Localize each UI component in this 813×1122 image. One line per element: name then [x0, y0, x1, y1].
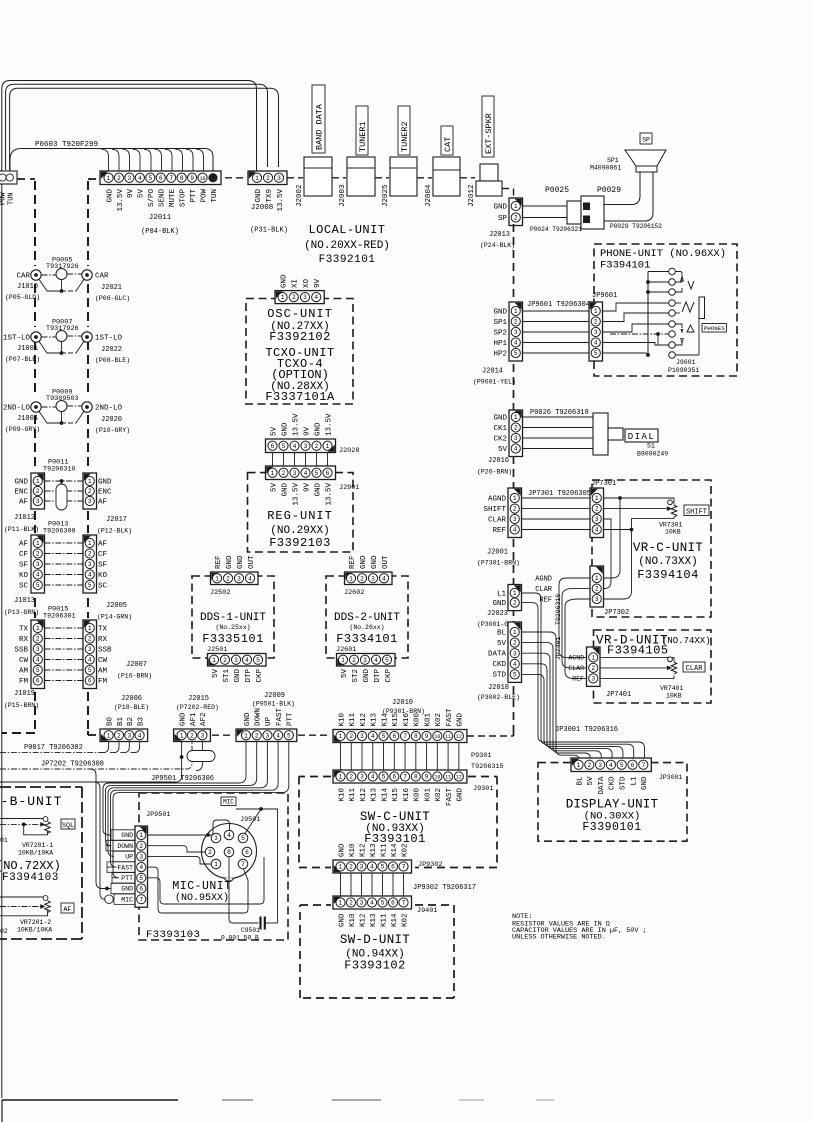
svg-text:SHIFT: SHIFT: [483, 506, 506, 514]
svg-text:(P9501-BLK): (P9501-BLK): [252, 701, 295, 708]
svg-text:GND: GND: [98, 478, 112, 486]
svg-text:(P12-BLK): (P12-BLK): [97, 528, 132, 535]
svg-text:(P3002-BLE): (P3002-BLE): [477, 694, 520, 701]
svg-text:5: 5: [36, 667, 40, 674]
wire harness JP9601 T9206304: [523, 301, 591, 353]
svg-text:5: 5: [282, 443, 286, 450]
svg-text:1: 1: [339, 774, 343, 781]
svg-text:SSB: SSB: [14, 646, 28, 654]
svg-text:4: 4: [304, 470, 308, 477]
cable P0013 T9206300 (J1013 to J2005): [4, 521, 132, 621]
svg-text:FM: FM: [19, 678, 29, 686]
svg-text:1ST-LO: 1ST-LO: [3, 335, 31, 343]
svg-text:12: 12: [456, 775, 462, 781]
dashed chassis boundary right side: [467, 224, 514, 736]
svg-text:JP3001: JP3001: [659, 774, 683, 781]
svg-text:5: 5: [36, 582, 40, 589]
svg-text:K02: K02: [435, 788, 443, 802]
svg-text:DISPLAY-UNIT: DISPLAY-UNIT: [566, 798, 659, 812]
svg-text:FAST: FAST: [446, 708, 454, 727]
svg-text:T9317926: T9317926: [46, 263, 79, 271]
svg-text:5V: 5V: [270, 426, 278, 436]
svg-text:BL: BL: [497, 629, 507, 637]
svg-text:ST2: ST2: [352, 669, 360, 683]
svg-text:F3392103: F3392103: [269, 536, 331, 550]
svg-text:5V: 5V: [497, 640, 507, 648]
svg-text:3: 3: [277, 175, 281, 182]
svg-text:5: 5: [256, 657, 260, 664]
svg-text:AGND: AGND: [488, 495, 507, 503]
svg-text:9V: 9V: [303, 426, 311, 436]
svg-text:CLAR: CLAR: [686, 665, 704, 673]
socket J2004 with CAT label: [425, 126, 460, 207]
svg-text:K12: K12: [359, 914, 367, 928]
svg-text:1: 1: [577, 762, 581, 769]
unit box SW-D-UNIT (NO.94XX) F3393102: [300, 905, 454, 998]
svg-text:TUN: TUN: [8, 192, 16, 205]
svg-text:AF2: AF2: [200, 712, 208, 726]
unit box MIC-UNIT (NO.95XX) F3393103: [139, 793, 288, 940]
svg-text:3: 3: [88, 646, 92, 653]
svg-text:1: 1: [88, 540, 92, 547]
svg-text:REG-UNIT: REG-UNIT: [267, 509, 333, 523]
label MIC: [221, 797, 236, 806]
svg-text:SP1: SP1: [607, 157, 619, 164]
svg-text:T9206301: T9206301: [43, 613, 76, 621]
svg-text:1: 1: [271, 470, 275, 477]
svg-text:1: 1: [591, 655, 595, 662]
svg-text:JP9302: JP9302: [418, 861, 442, 869]
svg-text:4: 4: [594, 340, 598, 347]
svg-text:(NO.73XX): (NO.73XX): [638, 556, 697, 568]
svg-text:1: 1: [255, 175, 259, 182]
svg-text:3: 3: [214, 835, 218, 842]
svg-text:1ST-LO: 1ST-LO: [95, 335, 123, 343]
svg-text:MUTE: MUTE: [169, 189, 177, 208]
svg-text:GND: GND: [493, 204, 507, 212]
svg-text:J2011: J2011: [149, 214, 172, 222]
unit label VR-D-UNIT: [596, 634, 711, 658]
svg-text:3: 3: [595, 516, 599, 523]
svg-text:DTP: DTP: [374, 669, 382, 683]
wires JP7301 to VR7301: [604, 496, 675, 599]
svg-text:AF: AF: [63, 906, 71, 914]
svg-text:MIC: MIC: [121, 896, 133, 903]
svg-text:J1010: J1010: [17, 283, 38, 291]
svg-text:(P07-BLE): (P07-BLE): [5, 356, 40, 363]
svg-text:P0017 T9206302: P0017 T9206302: [24, 744, 83, 752]
wire harness JP3001 T9206316 (display bundle): [522, 593, 645, 761]
svg-text:3: 3: [360, 900, 364, 907]
svg-text:CKP: CKP: [385, 669, 393, 683]
connector J2001 (P7301-BRN): [477, 488, 522, 567]
svg-text:10: 10: [434, 734, 440, 740]
svg-text:4: 4: [36, 657, 40, 664]
svg-text:J2014: J2014: [482, 368, 503, 376]
svg-text:F3394101: F3394101: [600, 260, 650, 272]
svg-text:1: 1: [180, 732, 184, 739]
svg-text:2: 2: [513, 506, 517, 513]
svg-text:AGND: AGND: [535, 575, 552, 583]
svg-text:3: 3: [304, 443, 308, 450]
svg-text:P0026 T9206318: P0026 T9206318: [530, 409, 589, 417]
svg-text:5: 5: [620, 762, 624, 769]
svg-text:K12: K12: [360, 713, 368, 727]
svg-text:1: 1: [107, 732, 111, 739]
svg-text:P0025: P0025: [545, 186, 569, 195]
svg-text:3: 3: [128, 175, 132, 182]
svg-text:(P18-BLE): (P18-BLE): [114, 704, 149, 711]
svg-text:3: 3: [371, 575, 375, 582]
svg-text:J2022: J2022: [101, 346, 122, 354]
svg-text:4: 4: [139, 864, 143, 871]
svg-text:(P09-GRY): (P09-GRY): [5, 426, 40, 433]
svg-text:7: 7: [641, 762, 645, 769]
svg-text:VR7201-2: VR7201-2: [20, 919, 51, 926]
svg-text:VR7201-1: VR7201-1: [22, 842, 53, 849]
svg-text:DTP: DTP: [245, 669, 253, 683]
svg-text:GND: GND: [281, 483, 289, 497]
svg-text:2: 2: [514, 425, 518, 432]
svg-text:6: 6: [391, 864, 395, 871]
svg-text:SF: SF: [98, 561, 107, 569]
svg-text:J2021: J2021: [101, 284, 122, 292]
wire harness P0017 T9206302: [0, 742, 140, 753]
svg-text:J2008: J2008: [251, 204, 274, 212]
svg-text:DIAL: DIAL: [628, 432, 656, 442]
svg-text:12: 12: [456, 734, 462, 740]
cable P0011 T9206310 (J1012 to J2017): [4, 459, 132, 535]
svg-text:1: 1: [514, 308, 518, 315]
svg-text:J2901: J2901: [339, 484, 359, 492]
svg-text:CAT: CAT: [443, 137, 453, 152]
svg-text:8: 8: [414, 774, 418, 781]
svg-text:(No.25xx): (No.25xx): [215, 624, 250, 631]
svg-text:F3394105: F3394105: [607, 644, 669, 658]
svg-text:GND: GND: [457, 712, 465, 726]
svg-text:JP7202 T9206308: JP7202 T9206308: [41, 761, 104, 769]
svg-text:B0: B0: [106, 716, 114, 726]
svg-text:4: 4: [88, 572, 92, 579]
svg-text:GND: GND: [492, 600, 506, 608]
svg-text:F3392101: F3392101: [319, 254, 376, 266]
svg-text:F3393103: F3393103: [146, 929, 200, 941]
svg-text:F3337101A: F3337101A: [265, 390, 335, 404]
svg-text:K10: K10: [349, 843, 357, 857]
unit label SW-D-UNIT: [340, 933, 410, 973]
svg-text:2: 2: [190, 732, 194, 739]
svg-text:J2028: J2028: [339, 447, 359, 455]
svg-text:3: 3: [139, 854, 143, 861]
svg-text:J2010: J2010: [392, 699, 413, 707]
svg-text:JP9601: JP9601: [592, 292, 617, 300]
wire harness JP7301 T9206305: [522, 490, 592, 530]
svg-text:K16: K16: [403, 788, 411, 802]
dashed link J2004-J2012: [460, 177, 475, 179]
svg-text:13.5V: 13.5V: [325, 413, 333, 436]
svg-text:REF: REF: [349, 555, 357, 569]
svg-text:6: 6: [392, 733, 396, 740]
svg-text:5: 5: [382, 733, 386, 740]
svg-text:3: 3: [303, 294, 307, 301]
svg-text:3: 3: [360, 864, 364, 871]
svg-text:S1: S1: [647, 443, 655, 450]
svg-text:GND: GND: [371, 555, 379, 569]
svg-text:VR7401: VR7401: [660, 685, 684, 692]
unit label DISPLAY-UNIT: [566, 798, 659, 835]
svg-text:K10: K10: [338, 712, 346, 726]
svg-text:CLAR: CLAR: [535, 586, 553, 594]
dashed link J2002-J2003: [332, 177, 346, 179]
svg-text:GND: GND: [314, 422, 322, 436]
dashed link J2011-J2008: [225, 177, 246, 179]
svg-text:9V: 9V: [127, 189, 135, 199]
svg-text:F3394103: F3394103: [2, 872, 59, 884]
svg-text:1: 1: [214, 861, 218, 868]
svg-text:2: 2: [36, 551, 40, 558]
svg-text:13.5V: 13.5V: [292, 413, 300, 436]
svg-text:6: 6: [245, 849, 249, 856]
svg-text:2: 2: [349, 864, 353, 871]
svg-text:CKD: CKD: [609, 776, 617, 790]
svg-text:10: 10: [434, 775, 440, 781]
svg-text:5V: 5V: [341, 669, 349, 679]
svg-text:3: 3: [360, 733, 364, 740]
connector J2015 (P7202-RED): [174, 695, 219, 742]
svg-text:K02: K02: [435, 713, 443, 727]
svg-text:J2009: J2009: [264, 692, 285, 700]
svg-text:SP: SP: [642, 137, 650, 144]
socket J2025 with TUNER2 label: [382, 106, 417, 207]
svg-text:5: 5: [381, 900, 385, 907]
svg-text:J2502: J2502: [210, 589, 230, 597]
svg-text:1: 1: [281, 294, 285, 301]
svg-text:J1004: J1004: [17, 415, 38, 423]
svg-text:3: 3: [237, 575, 241, 582]
wire harness JP7202 T9206308: [0, 742, 202, 771]
wire harness JP9501 T9206306: [103, 742, 289, 878]
svg-text:4: 4: [293, 443, 297, 450]
dial encoder S1 B9000249: [593, 413, 668, 458]
svg-text:(P7202-RED): (P7202-RED): [176, 704, 219, 711]
svg-text:CKD: CKD: [492, 661, 506, 669]
svg-text:REF: REF: [215, 555, 223, 569]
svg-text:3: 3: [88, 561, 92, 568]
svg-text:1: 1: [514, 203, 518, 210]
svg-text:SP2: SP2: [493, 329, 507, 337]
svg-text:GND: GND: [244, 712, 252, 726]
svg-text:AF1: AF1: [190, 712, 198, 726]
svg-text:7: 7: [241, 861, 245, 868]
svg-text:P1090351: P1090351: [668, 367, 699, 374]
connector J2023 (P3001-GRY): [477, 585, 522, 629]
unit label SW-C-UNIT: [360, 810, 430, 846]
svg-text:10: 10: [200, 176, 206, 182]
svg-text:J2501: J2501: [207, 646, 227, 654]
svg-text:3: 3: [595, 596, 599, 603]
svg-text:J2007: J2007: [126, 661, 147, 669]
svg-text:1: 1: [36, 625, 40, 632]
connector J2011 (P04-BLK): [100, 171, 221, 236]
svg-text:1: 1: [514, 414, 518, 421]
svg-text:AF: AF: [19, 540, 28, 548]
svg-text:13.5V: 13.5V: [292, 483, 300, 506]
svg-text:(P24-BLK): (P24-BLK): [480, 242, 515, 249]
svg-text:6: 6: [88, 678, 92, 685]
svg-text:2: 2: [139, 843, 143, 850]
svg-text:6: 6: [631, 762, 635, 769]
svg-text:2: 2: [513, 600, 517, 607]
svg-text:1: 1: [595, 575, 599, 582]
svg-text:BAND DATA: BAND DATA: [315, 103, 325, 150]
connector JP9601 (phone unit): [589, 292, 617, 361]
label SHIFT: [684, 505, 709, 516]
svg-text:2: 2: [594, 319, 598, 326]
svg-text:6: 6: [36, 678, 40, 685]
svg-text:1: 1: [88, 478, 92, 485]
svg-text:RX: RX: [19, 636, 29, 644]
svg-text:OSC-UNIT: OSC-UNIT: [267, 307, 333, 321]
svg-text:4: 4: [36, 572, 40, 579]
svg-text:2: 2: [595, 506, 599, 513]
svg-text:JP7301: JP7301: [591, 480, 616, 488]
svg-text:AF: AF: [19, 498, 28, 506]
svg-text:GND: GND: [314, 483, 322, 497]
unit box DISPLAY-UNIT (NO.30XX) F3390101: [538, 763, 687, 842]
svg-text:3: 3: [36, 561, 40, 568]
svg-text:XO: XO: [303, 278, 311, 288]
svg-text:B9000249: B9000249: [637, 451, 668, 458]
svg-text:6: 6: [326, 470, 330, 477]
svg-text:(P9601-YEL): (P9601-YEL): [473, 379, 516, 386]
svg-text:J2601: J2601: [336, 646, 356, 654]
potentiometer VR7201-2 10KB/10KA (AF): [0, 896, 52, 935]
svg-text:FAST: FAST: [446, 788, 454, 807]
svg-text:J1001: J1001: [17, 345, 38, 353]
svg-text:2: 2: [591, 665, 595, 672]
svg-text:9V: 9V: [314, 278, 322, 288]
svg-text:(P14-GRN): (P14-GRN): [97, 614, 132, 621]
svg-text:4: 4: [370, 864, 374, 871]
svg-text:2: 2: [226, 575, 230, 582]
svg-text:F3390101: F3390101: [582, 821, 641, 834]
wire harness JP7401 T9206316 (VR units): [555, 578, 590, 678]
unit DDS-2-UNIT (No.26xx) F3334101 with J2602/J2601: [326, 555, 408, 683]
svg-text:13.5V: 13.5V: [277, 189, 285, 212]
svg-text:F3394104: F3394104: [637, 568, 699, 582]
svg-text:1: 1: [349, 575, 353, 582]
svg-text:SC: SC: [98, 582, 108, 590]
svg-text:2: 2: [514, 319, 518, 326]
svg-text:6: 6: [391, 900, 395, 907]
svg-text:JP7401: JP7401: [606, 691, 631, 699]
svg-text:F3334101: F3334101: [336, 632, 398, 646]
svg-text:STOP: STOP: [179, 189, 187, 208]
svg-text:J9301: J9301: [473, 785, 493, 793]
svg-text:CF: CF: [98, 551, 107, 559]
svg-text:1: 1: [326, 443, 330, 450]
svg-text:OUT: OUT: [248, 555, 256, 569]
svg-text:J2001: J2001: [487, 549, 508, 557]
svg-text:POW: POW: [0, 192, 8, 205]
connector J2008 (P31-BLK): [248, 171, 288, 235]
connector J2018 (P3002-BLE): [477, 622, 522, 701]
wire JP7202 branch into mic area: [90, 769, 114, 904]
svg-text:SHIFT: SHIFT: [686, 508, 707, 516]
socket J2003 with TUNER1 label: [339, 106, 375, 207]
connector J2006 (P18-BLE): [100, 695, 149, 742]
svg-text:K13: K13: [370, 843, 378, 857]
label DIAL: [625, 429, 658, 442]
svg-text:GND: GND: [121, 886, 133, 893]
svg-text:GND: GND: [226, 555, 234, 569]
connector JP3001: [571, 758, 683, 795]
svg-text:B1: B1: [117, 716, 125, 726]
svg-text:7: 7: [403, 774, 407, 781]
svg-text:POW: POW: [200, 189, 208, 203]
svg-text:(NO.20XX-RED): (NO.20XX-RED): [304, 240, 390, 252]
svg-text:T9309503: T9309503: [46, 395, 79, 403]
svg-text:J9601: J9601: [676, 359, 696, 366]
svg-text:7: 7: [402, 864, 406, 871]
svg-text:DATA: DATA: [598, 776, 606, 795]
svg-text:GND: GND: [179, 712, 187, 726]
svg-text:3: 3: [598, 762, 602, 769]
svg-text:GND: GND: [338, 913, 346, 927]
svg-text:TUNER1: TUNER1: [358, 121, 368, 152]
svg-text:J2017: J2017: [106, 516, 127, 524]
connector J2701 (osc unit): [275, 274, 324, 304]
svg-text:GND: GND: [121, 832, 133, 839]
svg-text:J2015: J2015: [188, 695, 209, 703]
svg-text:K01: K01: [424, 788, 432, 802]
svg-text:K13: K13: [370, 913, 378, 927]
svg-text:J2005: J2005: [106, 602, 127, 610]
svg-text:13.5V: 13.5V: [117, 189, 125, 212]
svg-text:5: 5: [148, 175, 152, 182]
svg-text:TX9: TX9: [266, 189, 274, 203]
svg-text:K10: K10: [338, 788, 346, 802]
svg-text:3: 3: [513, 650, 517, 657]
svg-text:2: 2: [595, 586, 599, 593]
svg-text:SW-D-UNIT: SW-D-UNIT: [340, 933, 410, 947]
svg-text:(P13-GRN): (P13-GRN): [4, 609, 39, 616]
svg-text:K11: K11: [349, 712, 357, 726]
svg-text:GND: GND: [493, 414, 507, 422]
svg-text:J1019: J1019: [14, 690, 35, 698]
svg-text:K00: K00: [414, 788, 422, 802]
svg-text:10KB: 10KB: [666, 693, 682, 700]
svg-text:GND: GND: [281, 422, 289, 436]
svg-text:3: 3: [363, 657, 367, 664]
svg-text:3: 3: [88, 498, 92, 505]
svg-text:(P26-BRN): (P26-BRN): [477, 469, 512, 476]
connector JP9501 with signal flags: [106, 816, 260, 907]
svg-text:5: 5: [315, 470, 319, 477]
svg-text:5V: 5V: [270, 483, 278, 493]
connector J2010 (P9301-BRN): [333, 699, 467, 743]
svg-text:SEND: SEND: [159, 189, 167, 208]
phone jack contacts and switch symbols: [603, 268, 705, 358]
wire harness top (3 wires from J2008 to left edge): [2, 81, 279, 1099]
svg-text:7: 7: [139, 896, 143, 903]
connector J9301 (SW-C unit): [333, 770, 493, 806]
svg-text:1: 1: [212, 657, 216, 664]
svg-text:10KB: 10KB: [665, 529, 681, 536]
svg-text:3: 3: [514, 435, 518, 442]
svg-text:(NO.95XX): (NO.95XX): [175, 892, 229, 904]
connector J2013 (P24-BLK): [480, 198, 523, 249]
